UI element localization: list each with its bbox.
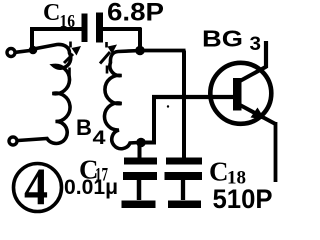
svg-text:16: 16 bbox=[60, 11, 76, 31]
svg-text:C: C bbox=[43, 0, 60, 26]
svg-text:4: 4 bbox=[24, 159, 48, 217]
svg-text:0.01μ: 0.01μ bbox=[64, 176, 118, 199]
svg-text:6.8P: 6.8P bbox=[107, 0, 164, 27]
svg-text:BG: BG bbox=[202, 26, 243, 52]
svg-text:4: 4 bbox=[93, 128, 107, 149]
svg-text:510P: 510P bbox=[213, 184, 273, 214]
svg-text:C: C bbox=[209, 157, 229, 187]
svg-text:3: 3 bbox=[250, 34, 262, 55]
svg-text:B: B bbox=[76, 115, 92, 140]
